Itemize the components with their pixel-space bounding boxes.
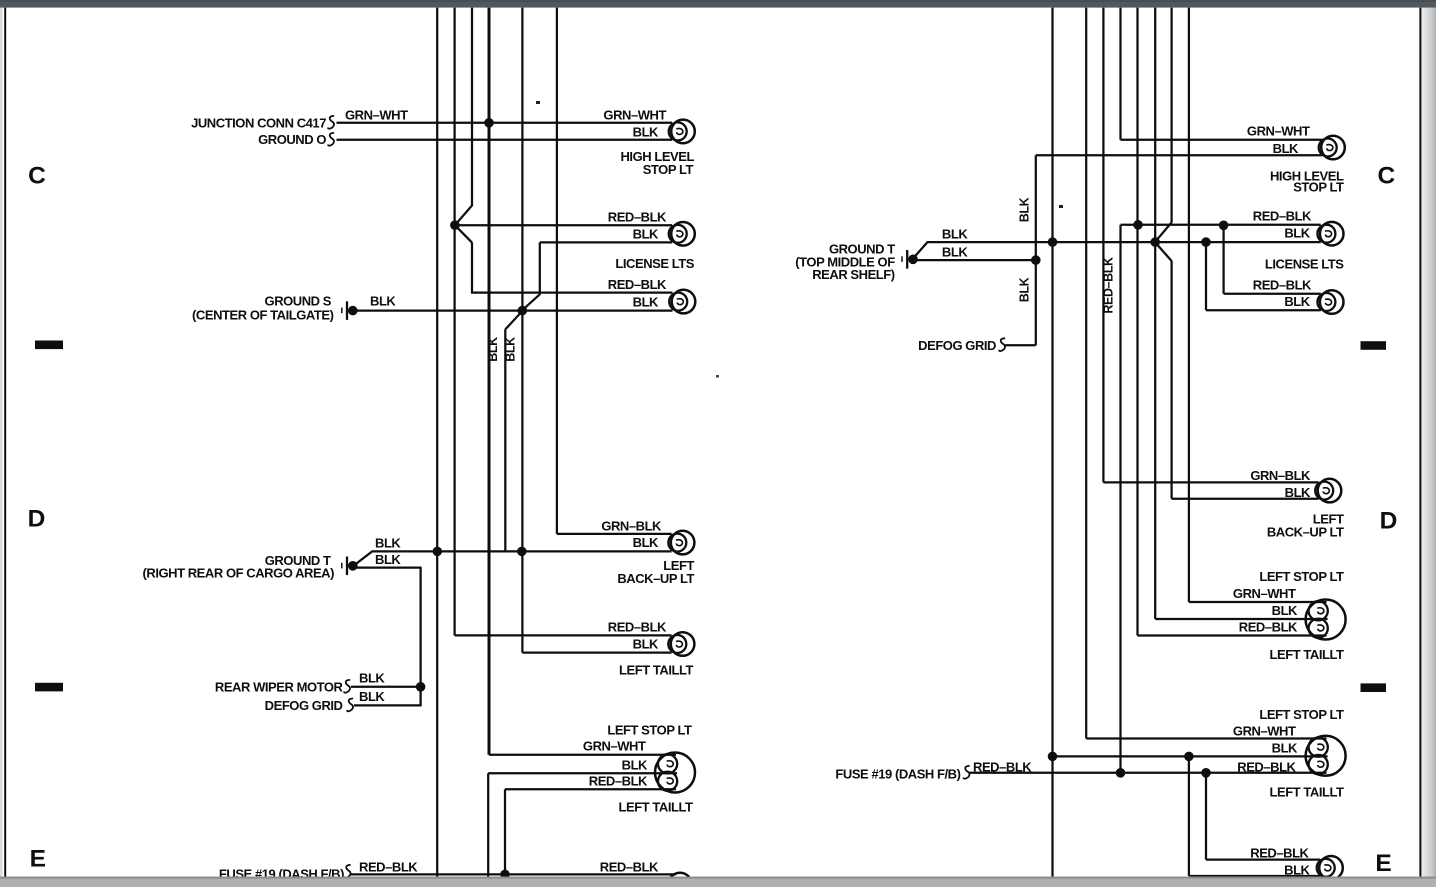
svg-text:RED–BLK: RED–BLK: [1237, 760, 1296, 775]
svg-text:BLK: BLK: [375, 552, 401, 567]
wire BLK taillt E: [1189, 875, 1320, 877]
wire L4 lower segment: [487, 773, 489, 876]
svg-text:RED–BLK: RED–BLK: [1239, 620, 1298, 635]
wire license1 BLK vertical: [539, 242, 541, 294]
svg-text:LICENSE LTS: LICENSE LTS: [615, 256, 694, 271]
svg-text:GRN–WHT: GRN–WHT: [1233, 724, 1296, 739]
lamp left back-up lt: [668, 531, 694, 555]
svg-text:GROUND O: GROUND O: [258, 132, 326, 147]
svg-text:BLK: BLK: [1284, 294, 1310, 309]
wire RED-BLK license right: [1121, 224, 1321, 226]
junction ground T / L6: [517, 547, 527, 557]
ground T (top middle of rear shelf): [902, 250, 918, 269]
margin tick left lower: [35, 683, 63, 692]
wire ground T right diagonal: [915, 242, 928, 256]
junction ground T right / R6: [1150, 237, 1160, 247]
svg-text:GRN–WHT: GRN–WHT: [1247, 124, 1310, 139]
junction fuse 19 / taillt: [500, 870, 510, 880]
svg-text:LEFT STOP LT: LEFT STOP LT: [1259, 707, 1344, 722]
wire GRN-WHT junction conn C417: [337, 122, 673, 124]
wire GRN-WHT stop right lower: [1086, 737, 1326, 739]
svg-text:RED–BLK: RED–BLK: [1250, 846, 1309, 861]
svg-text:E: E: [30, 846, 46, 873]
svg-text:RED–BLK: RED–BLK: [608, 210, 667, 225]
junction RED-BLK / R10: [1219, 221, 1229, 231]
wire bus R6 vertical: [1154, 8, 1156, 619]
lamp license lts 2 right: [1317, 290, 1343, 314]
wire RED-BLK left taillt lower: [505, 788, 676, 790]
junction fuse right / R9: [1201, 768, 1211, 778]
junction fuse right / R4: [1116, 768, 1126, 778]
svg-text:RED–BLK: RED–BLK: [1253, 278, 1312, 293]
svg-text:BLK: BLK: [1285, 485, 1311, 500]
svg-text:BLK: BLK: [622, 758, 648, 773]
wire GRN-WHT stop right upper: [1189, 601, 1327, 603]
wire bus L2 vertical: [453, 8, 455, 636]
wire R9 license drop: [1205, 242, 1207, 310]
left page border: [4, 8, 6, 877]
svg-text:RED–BLK: RED–BLK: [608, 277, 667, 292]
wire BLK ground T right: [927, 241, 1321, 243]
svg-text:BLK: BLK: [1272, 741, 1298, 756]
wire L3 jog from junction: [455, 225, 472, 242]
svg-text:BLK: BLK: [1018, 277, 1032, 302]
svg-text:RED–BLK: RED–BLK: [973, 760, 1032, 775]
wire RED-BLK left taillt: [455, 634, 672, 636]
wire RED-BLK fuse 19: [350, 873, 676, 875]
left scan strip: [0, 8, 3, 877]
wire jog from junction S up-right: [522, 294, 540, 310]
wire RED-BLK fuse 19 right: [969, 772, 1327, 774]
lamp left stop lt / taillt double: [655, 753, 695, 793]
svg-text:REAR SHELF): REAR SHELF): [812, 267, 895, 282]
connector half defog grid: [347, 699, 353, 712]
wire ground T diagonal: [355, 551, 373, 565]
svg-text:GRN–WHT: GRN–WHT: [1233, 586, 1296, 601]
svg-text:BLK: BLK: [633, 227, 659, 242]
svg-text:RED–BLK: RED–BLK: [1253, 209, 1312, 224]
wire bus R7 vertical upper: [1170, 8, 1172, 223]
junction rear wiper / ground T drop: [416, 682, 426, 692]
wire R4 RED-BLK vertical: [1119, 225, 1121, 773]
wire R9 lower segment: [1205, 773, 1207, 860]
right page border: [1419, 8, 1421, 877]
wire BLK license lt 1: [540, 241, 672, 243]
scan speckle: [716, 375, 719, 378]
wire bus R4 vertical upper: [1119, 8, 1121, 140]
wire bus L1 vertical: [436, 8, 438, 877]
svg-text:REAR WIPER MOTOR: REAR WIPER MOTOR: [215, 680, 344, 695]
svg-text:RED–BLK: RED–BLK: [1102, 257, 1116, 314]
wire BLK defog grid: [354, 704, 422, 706]
wire bus L7 vertical: [556, 8, 558, 534]
margin tick right lower: [1361, 683, 1387, 692]
wire BLK ground S: [357, 309, 673, 311]
svg-text:C: C: [1377, 163, 1395, 190]
wire GRN-BLK back-up right: [1103, 481, 1318, 483]
wire BLK left taillt lower: [488, 772, 677, 774]
wire R7 jog down to junction: [1155, 222, 1171, 241]
wire GRN-BLK back-up lt: [557, 533, 672, 535]
svg-text:GRN–WHT: GRN–WHT: [583, 739, 646, 754]
svg-text:BLK: BLK: [486, 337, 500, 362]
right scan strip: [1422, 8, 1436, 877]
svg-text:RED–BLK: RED–BLK: [589, 774, 648, 789]
wire bus L6 vertical: [521, 8, 523, 653]
svg-text:BLK: BLK: [1284, 226, 1310, 241]
connector half fuse 19: [345, 865, 351, 878]
svg-text:GROUND S: GROUND S: [265, 294, 332, 309]
wire bus R8 vertical: [1188, 8, 1190, 602]
svg-text:BLK: BLK: [359, 689, 385, 704]
wire R7 vertical lower: [1170, 261, 1172, 499]
junction RED-BLK / R5: [1133, 220, 1143, 230]
wire bus R3 vertical: [1102, 8, 1104, 483]
wire RED-BLK license lt 2: [471, 291, 673, 293]
svg-text:BLK: BLK: [942, 245, 968, 260]
wire BLK left taillt: [522, 651, 671, 653]
connector half ground O: [328, 133, 334, 146]
lamp left stop lt / taillt lower right: [1306, 736, 1346, 776]
svg-text:BLK: BLK: [375, 536, 401, 551]
svg-text:DEFOG GRID: DEFOG GRID: [265, 698, 343, 713]
svg-text:GRN–WHT: GRN–WHT: [603, 108, 666, 123]
wire BLK rear wiper motor: [351, 686, 421, 688]
wire BLK stop right upper: [1155, 618, 1327, 620]
wire RED-BLK taillt E: [1206, 858, 1320, 860]
svg-text:BLK: BLK: [359, 671, 385, 686]
svg-text:LEFT TAILLT: LEFT TAILLT: [619, 663, 693, 678]
wire RED-BLK license lt 1: [455, 224, 672, 226]
bottom scan bar: [0, 877, 1436, 887]
svg-text:LEFT TAILLT: LEFT TAILLT: [619, 800, 693, 815]
wire jog from junction S down-left: [505, 311, 522, 329]
scan speckle: [536, 101, 540, 104]
svg-text:BLK: BLK: [1272, 603, 1298, 618]
svg-text:STOP LT: STOP LT: [1293, 180, 1344, 195]
svg-text:BLK: BLK: [633, 295, 659, 310]
svg-text:LEFT STOP LT: LEFT STOP LT: [1259, 569, 1344, 584]
wire BLK defog vertical: [1035, 155, 1037, 345]
wire L3 jog down to junction: [455, 206, 472, 226]
junction ground T lower / defog vertical: [1031, 255, 1041, 265]
svg-text:BLK: BLK: [633, 125, 659, 140]
ground S (center of tailgate): [342, 301, 358, 320]
svg-text:BLK: BLK: [1273, 141, 1299, 156]
junction ground T right / R9: [1201, 237, 1211, 247]
wire RED-BLK stop right upper: [1138, 634, 1327, 636]
wire bus R1 vertical: [1051, 8, 1053, 877]
wire L5 lower segment: [504, 789, 506, 874]
wire BLK stop right lower: [1053, 755, 1328, 757]
junction RED-BLK license: [450, 220, 460, 230]
wire bus R5 vertical: [1136, 8, 1138, 636]
wire R8 lower segment: [1188, 756, 1190, 876]
wire bus R2 vertical: [1085, 8, 1087, 739]
svg-text:D: D: [1380, 508, 1398, 535]
svg-text:(RIGHT REAR OF CARGO AREA): (RIGHT REAR OF CARGO AREA): [143, 566, 335, 581]
connector half rear wiper motor: [344, 680, 350, 693]
svg-text:BLK: BLK: [1018, 197, 1032, 222]
ground T (right rear of cargo area): [342, 557, 358, 576]
svg-text:STOP LT: STOP LT: [643, 162, 694, 177]
svg-text:BLK: BLK: [633, 637, 659, 652]
wire BLK ground T: [372, 550, 672, 552]
svg-text:BLK: BLK: [1284, 863, 1310, 878]
svg-text:DEFOG GRID: DEFOG GRID: [918, 338, 996, 353]
lamp left taillt: [668, 632, 694, 656]
wire ground-T drop vertical: [419, 568, 421, 706]
wire R10 license drop: [1222, 225, 1224, 293]
svg-text:BLK: BLK: [633, 535, 659, 550]
svg-text:RED–BLK: RED–BLK: [608, 620, 667, 635]
wire bus L3 vertical upper: [471, 8, 473, 206]
lamp left taillt E right: [1317, 856, 1343, 880]
lamp high level stop lt left: [669, 120, 695, 144]
junction ground T / L1: [433, 547, 443, 557]
wire GRN-WHT high level right: [1121, 139, 1323, 141]
top scan bar: [0, 0, 1436, 8]
junction BLK stop lower / R8: [1184, 752, 1194, 762]
lamp license lts 1 left: [669, 222, 695, 246]
svg-text:GRN–BLK: GRN–BLK: [1250, 468, 1311, 483]
wire L3 vertical mid: [471, 242, 473, 292]
connector half fuse 19 right: [964, 766, 970, 779]
wire BLK ground T lower: [357, 566, 422, 568]
junction BLK stop lower / R1: [1048, 752, 1058, 762]
wire BLK high level right: [1036, 154, 1322, 156]
lamp left stop lt / taillt upper right: [1306, 600, 1346, 640]
connector half junction conn C417: [328, 116, 334, 129]
svg-text:BLK: BLK: [370, 294, 396, 309]
wire RED-BLK license right 2: [1224, 293, 1321, 295]
junction ground S wire: [518, 306, 528, 316]
svg-text:LEFT TAILLT: LEFT TAILLT: [1270, 785, 1344, 800]
svg-text:RED–BLK: RED–BLK: [359, 860, 418, 875]
svg-text:LICENSE LTS: LICENSE LTS: [1265, 257, 1344, 272]
lamp license lts 1 right: [1317, 222, 1343, 246]
junction GRN-WHT bus: [484, 118, 494, 128]
svg-text:BLK: BLK: [942, 227, 968, 242]
svg-text:LEFT STOP LT: LEFT STOP LT: [607, 723, 692, 738]
wire BLK ground T right lower: [911, 259, 1036, 261]
lamp license lts 2 left: [669, 290, 695, 314]
wire R7 jog from junction: [1155, 242, 1171, 261]
connector half defog grid right: [999, 338, 1005, 351]
svg-text:FUSE #19 (DASH F/B): FUSE #19 (DASH F/B): [835, 767, 960, 782]
wire L5 vertical segment: [504, 329, 506, 551]
svg-text:GRN–BLK: GRN–BLK: [601, 519, 662, 534]
wire BLK back-up right: [1172, 498, 1319, 500]
svg-text:E: E: [1375, 850, 1391, 877]
margin tick left upper: [35, 341, 63, 350]
svg-text:BLK: BLK: [504, 337, 518, 362]
svg-text:D: D: [28, 506, 46, 533]
scan speckle: [1059, 205, 1063, 208]
svg-text:RED–BLK: RED–BLK: [600, 860, 659, 875]
lamp left taillt bottom (cut): [668, 873, 692, 892]
svg-text:C: C: [28, 163, 46, 190]
junction ground T right / R1: [1048, 237, 1058, 247]
svg-text:GRN–WHT: GRN–WHT: [345, 108, 408, 123]
svg-text:BACK–UP LT: BACK–UP LT: [617, 571, 694, 586]
svg-text:(CENTER OF TAILGATE): (CENTER OF TAILGATE): [192, 308, 334, 323]
svg-text:LEFT TAILLT: LEFT TAILLT: [1270, 647, 1344, 662]
wire bus L4 vertical: [488, 8, 491, 755]
margin tick right upper: [1361, 341, 1387, 350]
lamp left back-up lt right: [1315, 479, 1341, 503]
wire BLK ground O: [337, 139, 673, 141]
svg-text:BACK–UP LT: BACK–UP LT: [1267, 525, 1344, 540]
wire GRN-WHT left stop lt: [489, 754, 676, 756]
wire BLK license right 2: [1206, 309, 1321, 311]
lamp high level stop lt right: [1319, 136, 1345, 160]
svg-text:JUNCTION CONN C417: JUNCTION CONN C417: [191, 116, 326, 131]
wire BLK defog right: [1005, 344, 1036, 346]
